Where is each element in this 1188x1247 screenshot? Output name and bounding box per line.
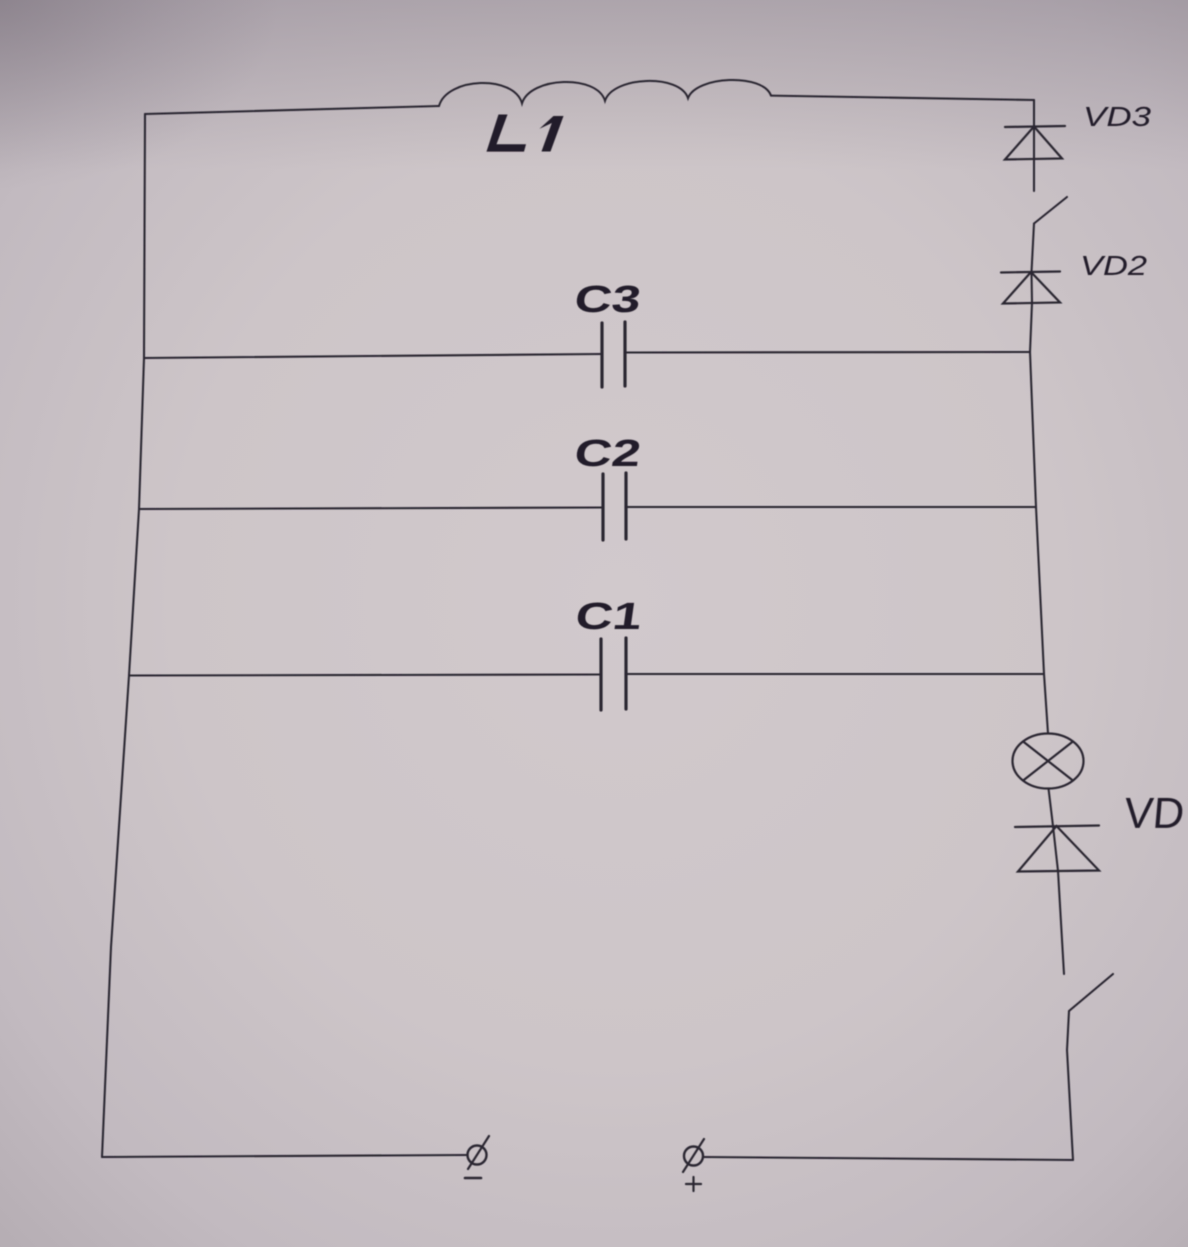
wire bottom-left horizontal	[102, 1155, 467, 1157]
lamp HL1 circle	[1013, 734, 1084, 789]
top-left corner shadow	[0, 0, 280, 190]
wire C1 row right	[626, 673, 1044, 675]
wire C3 row left	[144, 354, 602, 358]
terminal minus circle	[468, 1146, 487, 1165]
top shading	[0, 0, 1188, 170]
terminal plus slash	[683, 1139, 704, 1172]
wire right vertical bottom	[1067, 1050, 1073, 1160]
wire left vertical	[102, 114, 145, 1157]
terminal minus slash	[468, 1136, 489, 1169]
switch S2 blade	[1067, 974, 1113, 1050]
label L1 letter L	[487, 115, 527, 152]
svg-text:C1: C1	[573, 595, 645, 638]
diode VD2 triangle	[1003, 272, 1060, 304]
svg-text:C3: C3	[572, 278, 644, 321]
svg-text:VD: VD	[1122, 790, 1186, 838]
wire bottom-right horizontal	[703, 1157, 1073, 1160]
diode VD3 triangle	[1005, 127, 1062, 160]
lamp HL1 cross	[1023, 742, 1072, 781]
wire to VD2	[1032, 224, 1035, 304]
diode VD2 cathode bar	[1001, 272, 1060, 273]
switch S1 blade	[1034, 197, 1067, 224]
svg-text:VD3: VD3	[1083, 101, 1152, 132]
capacitor C3 plates	[600, 323, 603, 387]
wire VD2 to C3 node	[1030, 303, 1032, 352]
capacitor C2 plates	[601, 474, 604, 540]
inductor L1	[439, 80, 771, 106]
wire lamp to VD and through	[1049, 789, 1065, 975]
wire right vertical C3-C2	[1030, 352, 1036, 507]
diode VD3 cathode bar	[1005, 126, 1065, 127]
label VD	[1122, 790, 1186, 838]
wire right vertical C1-lamp	[1044, 674, 1048, 734]
capacitor C1 plates	[599, 639, 602, 710]
wire right vertical through VD3	[1033, 100, 1035, 191]
label C3	[572, 278, 644, 321]
diode VD cathode bar	[1015, 826, 1099, 828]
wire C2 row left	[139, 508, 603, 510]
svg-text:C2: C2	[572, 432, 644, 475]
wire C3 row right	[625, 351, 1030, 354]
label C1	[573, 595, 645, 638]
terminal minus sign	[465, 1177, 481, 1180]
svg-text:VD2: VD2	[1080, 250, 1148, 281]
wire right vertical C2-C1	[1036, 507, 1044, 674]
label C2	[572, 432, 644, 475]
wire C2 row right	[626, 506, 1036, 508]
wire C1 row left	[129, 675, 601, 676]
diode VD triangle	[1018, 826, 1099, 872]
terminal plus sign	[686, 1177, 701, 1191]
wire top-right horizontal	[771, 96, 1034, 100]
terminal plus circle	[684, 1147, 703, 1166]
wire top-left horizontal	[145, 106, 439, 114]
label L1 digit 1	[540, 116, 564, 152]
